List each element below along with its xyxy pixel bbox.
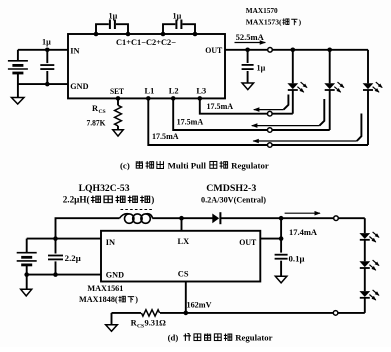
svg-text:1μ: 1μ [257,63,266,72]
svg-text:MAX1848(: MAX1848( [79,295,118,304]
svg-text:7.87K: 7.87K [87,118,106,127]
svg-text:17.5mA: 17.5mA [207,102,234,111]
svg-text:MAX1561: MAX1561 [87,284,123,293]
svg-text:(c): (c) [120,160,130,170]
svg-text:C1+C1−C2+C2−: C1+C1−C2+C2− [116,38,176,47]
svg-text:17.5mA: 17.5mA [177,117,204,126]
svg-text:162mV: 162mV [187,300,212,309]
svg-text:1μ: 1μ [173,11,182,20]
svg-text:): ) [135,295,138,304]
svg-text:1μ: 1μ [109,11,118,20]
svg-text:CS: CS [99,109,106,115]
svg-text:17.5mA: 17.5mA [152,132,179,141]
svg-text:1μ: 1μ [42,37,51,46]
svg-text:GND: GND [106,271,124,280]
svg-text:0.1μ: 0.1μ [289,254,305,263]
svg-text:IN: IN [70,46,79,55]
svg-text:LX: LX [178,237,190,246]
svg-text:OUT: OUT [205,46,222,55]
svg-text:Multi Pull: Multi Pull [168,160,207,170]
svg-text:Regulator: Regulator [231,160,269,170]
svg-text:2.2μH(: 2.2μH( [63,195,90,205]
svg-text:L2: L2 [169,87,179,96]
svg-text:L3: L3 [196,87,206,96]
svg-text:): ) [299,18,302,27]
svg-text:52.5mA: 52.5mA [236,33,264,42]
svg-text:17.4mA: 17.4mA [289,228,317,237]
svg-text:MAX1573(: MAX1573( [246,18,282,27]
svg-text:L1: L1 [145,87,155,96]
svg-text:2.2μ: 2.2μ [65,254,81,263]
svg-text:IN: IN [106,238,115,247]
svg-text:): ) [151,195,154,205]
svg-text:LQH32C-53: LQH32C-53 [79,183,130,193]
svg-text:0.2A/30V(Central): 0.2A/30V(Central) [201,196,266,205]
svg-text:CS: CS [178,269,189,278]
svg-text:9.31Ω: 9.31Ω [145,318,167,327]
svg-text:CMDSH2-3: CMDSH2-3 [206,184,256,194]
svg-text:CS: CS [137,323,144,329]
svg-text:SET: SET [110,87,124,96]
svg-text:GND: GND [70,82,88,91]
svg-text:Regulator: Regulator [235,333,272,343]
svg-text:(d): (d) [168,333,179,343]
svg-text:OUT: OUT [239,238,256,247]
svg-text:MAX1570: MAX1570 [246,6,278,15]
